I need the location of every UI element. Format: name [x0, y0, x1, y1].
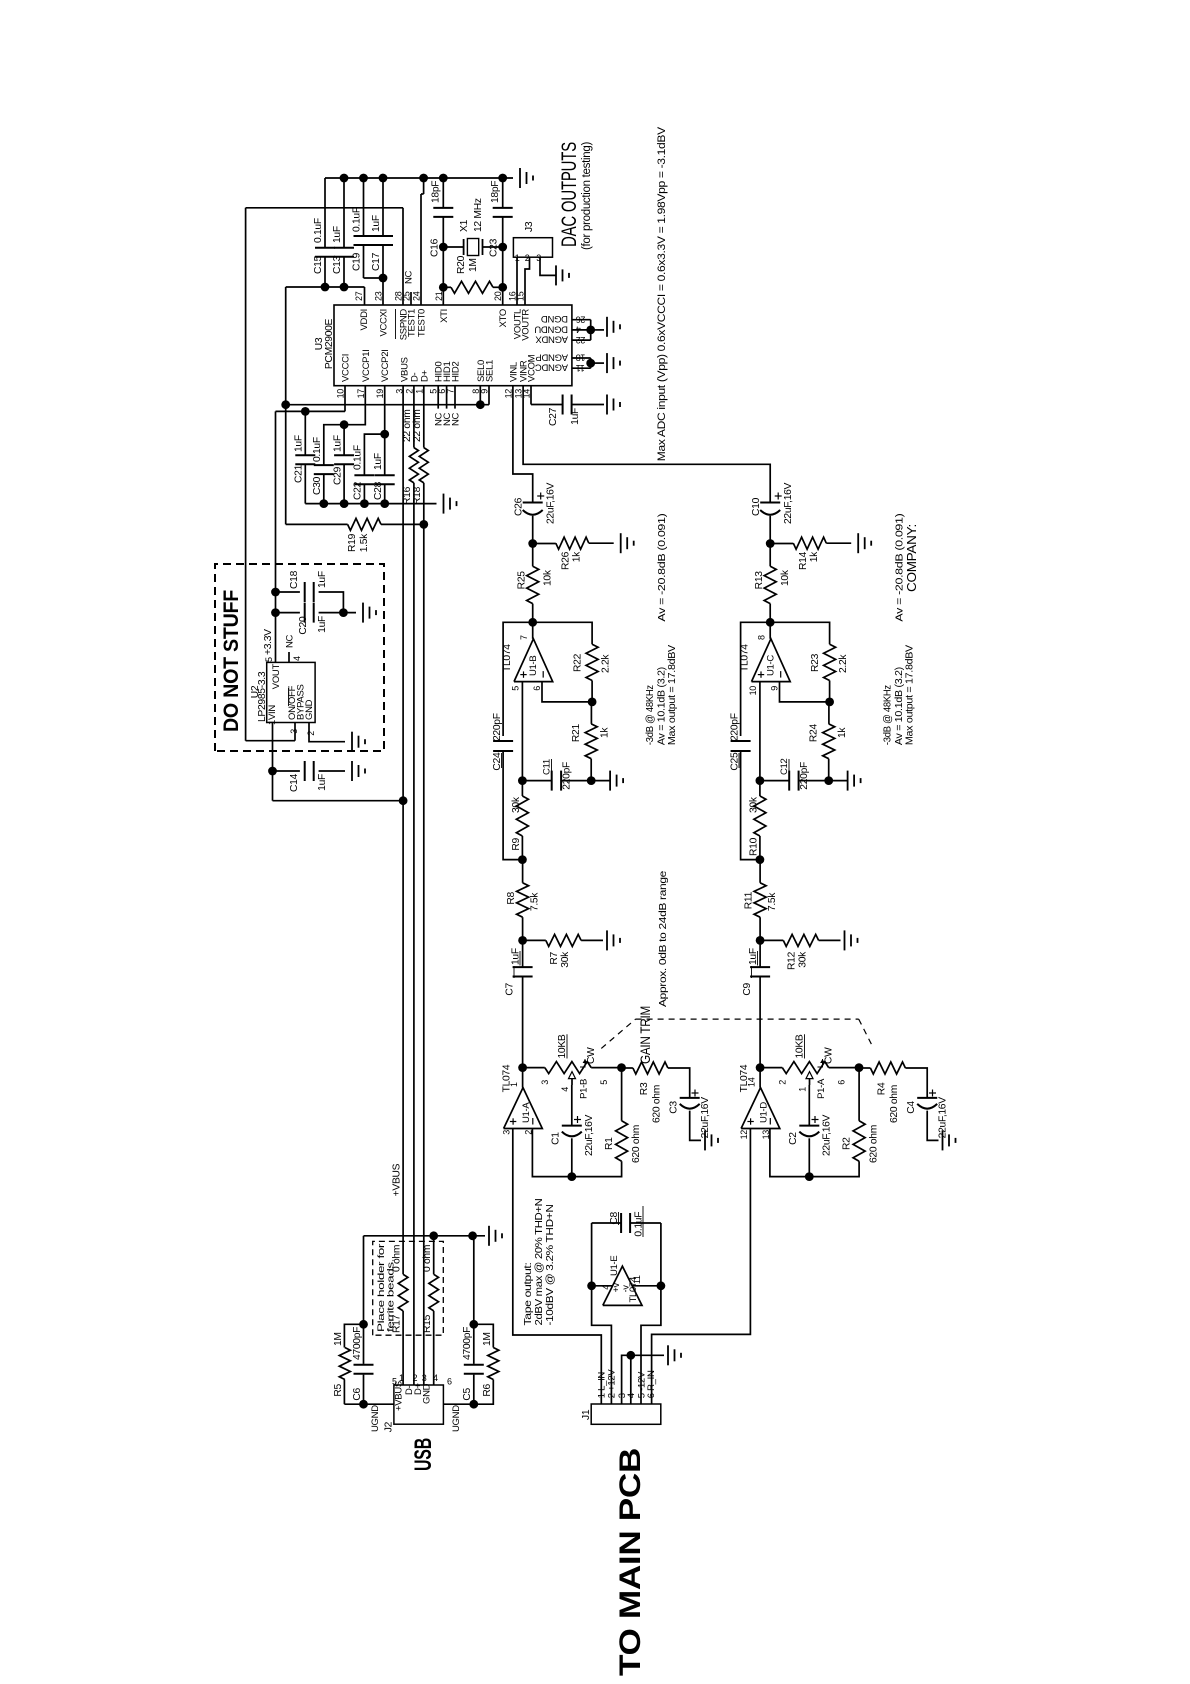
resistor R15 0 ohm — [422, 1231, 439, 1385]
svg-text:2: 2 — [778, 1080, 788, 1085]
capacitor C11 220pF — [522, 759, 591, 791]
svg-text:18pF: 18pF — [490, 181, 501, 203]
svg-text:Av = -20.8dB (0.091): Av = -20.8dB (0.091) — [656, 514, 668, 622]
svg-text:P1-B: P1-B — [579, 1079, 590, 1099]
svg-text:4: 4 — [601, 1285, 611, 1290]
svg-text:620 ohm: 620 ohm — [631, 1125, 642, 1163]
svg-text:10KB: 10KB — [795, 1034, 806, 1058]
U3 pin 19 VCCP2I — [375, 349, 391, 398]
svg-text:6: 6 — [532, 686, 542, 691]
svg-text:Tape output:: Tape output: — [523, 1263, 534, 1326]
capacitor C28 1uF — [373, 434, 395, 504]
resistor R7 30k to ground — [523, 934, 603, 967]
svg-text:3: 3 — [289, 729, 299, 734]
svg-text:R4: R4 — [877, 1082, 888, 1095]
svg-text:R19: R19 — [347, 533, 358, 552]
ground cap bank — [443, 494, 445, 514]
svg-text:DGNDU: DGNDU — [534, 323, 568, 334]
DO NOT STUFF dashed box — [215, 564, 384, 751]
capacitor C24 220pF feedback — [492, 622, 533, 859]
svg-text:2dBV max @ 20% THD+N: 2dBV max @ 20% THD+N — [534, 1199, 545, 1326]
svg-text:R22: R22 — [573, 653, 584, 672]
capacitor C1 22uF,16V — [551, 1085, 596, 1181]
svg-text:1k: 1k — [809, 551, 820, 562]
capacitor C14 1uF — [273, 761, 346, 792]
svg-text:C15: C15 — [313, 255, 324, 274]
resistor R19 1.5k pull-up — [286, 518, 428, 552]
svg-text:C27: C27 — [548, 407, 559, 426]
wire U1-D inverting feedback — [770, 1129, 859, 1177]
wire SEL0/SEL1 net — [286, 386, 489, 409]
connector J1 — [581, 1369, 661, 1425]
resistor R26 1k to ground — [533, 537, 614, 570]
annotation Av — [882, 514, 916, 746]
svg-text:R26: R26 — [561, 551, 572, 570]
svg-text:R8: R8 — [506, 891, 517, 904]
wire J1 pins 3 4 ground — [622, 1351, 664, 1404]
wire VDDI trunk B to SEL/R19 — [281, 287, 290, 524]
svg-text:7: 7 — [519, 635, 529, 640]
svg-text:10: 10 — [336, 389, 346, 399]
svg-text:C9: C9 — [742, 982, 753, 995]
resistor R22 2.2k — [573, 644, 612, 702]
wire UGND rail — [344, 1400, 478, 1409]
wire dashed pointer gain trim — [601, 1019, 873, 1048]
svg-text:30k: 30k — [749, 796, 760, 813]
U3 pin 6 HID1 — [437, 362, 453, 394]
capacitor C5 4700pF — [462, 1236, 484, 1404]
svg-text:(for production testing): (for production testing) — [581, 142, 593, 250]
capacitor C6 4700pF — [352, 1320, 374, 1404]
svg-text:C26: C26 — [514, 497, 525, 516]
svg-text:C19: C19 — [352, 252, 363, 271]
svg-text:9: 9 — [770, 686, 780, 691]
op-amp U1-E TL074 spare — [592, 1256, 661, 1306]
svg-text:C10: C10 — [751, 497, 762, 516]
svg-text:21: 21 — [434, 291, 444, 301]
svg-text:NC: NC — [404, 270, 415, 284]
svg-text:1k: 1k — [600, 727, 611, 738]
capacitor C10 22uF,16V input coupling — [751, 482, 794, 543]
svg-text:AGNDC: AGNDC — [535, 362, 568, 373]
svg-text:VCCP1I: VCCP1I — [361, 349, 372, 382]
Tape output annotation — [523, 1199, 556, 1326]
node pot top — [756, 1063, 765, 1072]
resistor R12 30k to ground — [760, 934, 840, 970]
svg-text:VOUTR: VOUTR — [521, 309, 532, 341]
wire TEST1 pin25 NC stub — [410, 292, 412, 305]
svg-text:P1-A: P1-A — [816, 1078, 827, 1099]
wire GND net to main ground — [364, 1231, 486, 1324]
svg-text:NC: NC — [285, 634, 296, 648]
svg-text:12: 12 — [739, 1130, 749, 1140]
svg-text:220pF: 220pF — [492, 713, 503, 741]
resistor R16 22 ohm — [402, 409, 418, 505]
svg-text:1uF: 1uF — [333, 435, 344, 452]
svg-text:5: 5 — [392, 1377, 397, 1387]
svg-text:GND: GND — [304, 699, 315, 720]
svg-text:D+: D+ — [419, 369, 430, 382]
op-amp U1-B TL074 — [502, 622, 553, 690]
resistor R21 1k — [571, 702, 611, 781]
capacitor C7 1uF — [505, 940, 533, 1067]
wire VOUTL pin16 to J3 pin1 — [516, 257, 518, 305]
svg-text:SEL1: SEL1 — [485, 360, 496, 382]
ground C27 — [606, 395, 608, 415]
svg-text:C21: C21 — [294, 464, 305, 483]
annotation Av — [644, 514, 678, 746]
GAIN TRIM title — [638, 870, 669, 1064]
wire VBUS net — [399, 386, 408, 1275]
svg-text:R5: R5 — [333, 1383, 344, 1396]
capacitor C20 1uF — [276, 603, 357, 635]
svg-text:620 ohm: 620 ohm — [869, 1125, 880, 1163]
capacitor C27 1uF on VCOM — [531, 386, 604, 426]
resistor R25 10k — [517, 544, 554, 623]
node feedback — [528, 618, 537, 627]
potentiometer P1-A 10KB — [760, 1034, 859, 1099]
svg-text:1uF: 1uF — [373, 453, 384, 470]
node R10/R11 — [756, 855, 765, 864]
svg-text:VCCCI: VCCCI — [341, 354, 352, 382]
resistor R8 7.5k — [506, 860, 541, 941]
svg-text:U1-B: U1-B — [528, 656, 539, 676]
svg-text:30k: 30k — [798, 951, 809, 968]
svg-text:R24: R24 — [809, 724, 820, 743]
capacitor C30 0.1uF — [312, 437, 334, 503]
capacitor C29 1uF — [333, 425, 355, 504]
svg-text:R12: R12 — [787, 951, 798, 970]
svg-text:C3: C3 — [669, 1101, 680, 1114]
crystal X1 12 MHz — [443, 198, 502, 255]
connector J2 USB — [370, 1373, 462, 1432]
svg-text:R25: R25 — [517, 571, 528, 590]
svg-text:620 ohm: 620 ohm — [652, 1085, 663, 1123]
wire VCCP2I net — [364, 386, 389, 475]
svg-text:C2: C2 — [788, 1132, 799, 1145]
svg-text:1: 1 — [509, 1082, 519, 1087]
ground R7 — [606, 930, 608, 950]
svg-text:5: 5 — [264, 657, 274, 662]
resistor R1 620 ohm — [604, 1068, 642, 1163]
capacitor C16 18pF — [430, 178, 454, 257]
wire TEST0 pin24 to ground bus — [420, 194, 422, 305]
wire VINL input from codec — [513, 386, 533, 503]
capacitor C13 1uF — [332, 178, 354, 287]
svg-text:R10: R10 — [749, 837, 760, 856]
svg-text:1k: 1k — [572, 551, 583, 562]
svg-text:22uF,16V: 22uF,16V — [783, 482, 794, 524]
U3 pin 17 VCCP1I — [356, 349, 372, 398]
resistor R3 620 ohm — [622, 1062, 690, 1123]
capacitor C22 0.1uF — [353, 445, 375, 503]
svg-text:R1: R1 — [604, 1137, 615, 1150]
wire + input pin 5 — [518, 682, 527, 785]
svg-text:1uF: 1uF — [371, 215, 382, 232]
svg-text:620 ohm: 620 ohm — [889, 1085, 900, 1123]
resistor R10 30k — [749, 781, 766, 860]
ground C18/C20 — [362, 603, 364, 623]
ground R21 node — [591, 771, 623, 791]
ground U2 GND — [351, 732, 353, 752]
svg-text:220pF: 220pF — [799, 762, 810, 790]
svg-text:0.1uF: 0.1uF — [313, 218, 324, 243]
resistor R2 620 ohm — [842, 1068, 880, 1163]
U3 pin 28 SSPND — [394, 291, 410, 340]
svg-text:-3dB @ 48KHz: -3dB @ 48KHz — [644, 685, 656, 745]
svg-text:17: 17 — [356, 389, 366, 399]
U3 pin 10 VCCCI — [336, 354, 352, 398]
capacitor C25 220pF feedback — [730, 622, 771, 859]
U3 pin 24 TEST0 — [412, 291, 428, 337]
svg-text:4700pF: 4700pF — [462, 1327, 473, 1360]
resistor R4 620 ohm — [859, 1062, 927, 1123]
svg-text:NC: NC — [451, 412, 462, 426]
svg-text:CW: CW — [824, 1047, 835, 1064]
U3 pin 22 AGNDX — [535, 334, 586, 345]
svg-text:R13: R13 — [754, 571, 765, 590]
svg-text:18pF: 18pF — [431, 181, 442, 203]
svg-text:+v: +v — [611, 1282, 621, 1292]
svg-text:22uF,16V: 22uF,16V — [584, 1114, 595, 1156]
ground USB GND net — [488, 1226, 490, 1246]
svg-text:+VBUS: +VBUS — [392, 1163, 403, 1196]
wire +12V rail — [587, 1223, 611, 1404]
capacitor C23 18pF — [489, 178, 513, 257]
svg-text:0.1uF: 0.1uF — [353, 445, 364, 470]
wire SSPND net to ON/OFF (trunk A) — [246, 208, 403, 741]
svg-text:C29: C29 — [333, 466, 344, 485]
svg-text:VCCP2I: VCCP2I — [380, 349, 391, 382]
wire feedback to R22 — [533, 622, 592, 644]
U3 pin 16 VOUTL — [508, 291, 524, 339]
wire VIN net from VBUS — [268, 723, 403, 801]
svg-text:R20: R20 — [456, 255, 467, 274]
svg-text:-3dB @ 48KHz: -3dB @ 48KHz — [882, 685, 894, 745]
op-amp U1-A TL074 — [502, 1064, 543, 1135]
svg-text:1uF: 1uF — [317, 571, 328, 588]
svg-text:U1-A: U1-A — [521, 1102, 532, 1123]
ground DGND group — [606, 317, 608, 337]
svg-text:2: 2 — [404, 389, 414, 394]
svg-text:1uF: 1uF — [332, 226, 343, 243]
U3 pin 26 DGND — [541, 313, 586, 324]
svg-text:7.5k: 7.5k — [530, 892, 541, 911]
svg-text:AGNDP: AGNDP — [536, 352, 568, 363]
wire VCCP1I net — [324, 386, 366, 465]
svg-text:HID2: HID2 — [451, 362, 462, 382]
capacitor C21 1uF — [294, 411, 316, 503]
svg-text:1: 1 — [414, 389, 424, 394]
ground R24 node — [829, 771, 861, 791]
svg-text:Max output = 17.8dBV: Max output = 17.8dBV — [666, 645, 678, 745]
svg-text:J2: J2 — [384, 1421, 395, 1432]
svg-text:GAIN TRIM: GAIN TRIM — [638, 1006, 653, 1064]
U3 pin 4 DGNDU — [534, 323, 580, 334]
op-amp U1-D TL074 — [739, 1064, 780, 1139]
svg-text:XTO: XTO — [498, 309, 509, 327]
svg-text:Max output = 17.8dBV: Max output = 17.8dBV — [904, 645, 916, 745]
U3 pin 8 SEL0 — [471, 360, 487, 394]
svg-text:12: 12 — [503, 389, 513, 399]
svg-text:10k: 10k — [780, 569, 791, 586]
svg-text:12 MHz: 12 MHz — [473, 198, 484, 232]
U3 pin 5 HID0 — [429, 362, 445, 394]
svg-text:20: 20 — [493, 291, 503, 301]
wire inverting input pin 6 — [542, 682, 592, 702]
wire XTO net pin20 — [498, 217, 507, 305]
svg-text:C11: C11 — [542, 759, 553, 775]
wire L_IN from J1 pin1 to U1-A + input — [513, 1129, 602, 1405]
svg-text:1uF: 1uF — [294, 435, 305, 452]
svg-text:1.5k: 1.5k — [359, 533, 370, 552]
svg-text:14: 14 — [747, 1077, 757, 1087]
svg-text:1M: 1M — [333, 1332, 344, 1346]
svg-text:24: 24 — [412, 291, 422, 301]
svg-text:1uF: 1uF — [570, 408, 581, 425]
wire J3 pin3 to ground — [540, 257, 556, 275]
resistor R14 1k to ground — [770, 537, 851, 570]
resistor R18 22 ohm — [412, 409, 428, 505]
wire -12V rail — [641, 1223, 665, 1404]
svg-text:C30: C30 — [312, 476, 323, 495]
resistor R9 30k — [511, 781, 528, 860]
svg-text:2.2k: 2.2k — [838, 654, 849, 673]
svg-text:U1-E: U1-E — [609, 1256, 620, 1276]
svg-text:2: 2 — [413, 1373, 418, 1383]
svg-text:R17: R17 — [392, 1314, 403, 1333]
svg-text:C18: C18 — [289, 570, 300, 589]
ground R26 — [620, 533, 622, 553]
svg-text:UGND: UGND — [370, 1405, 381, 1432]
resistor R17 0 ohm — [392, 1245, 408, 1385]
svg-text:30k: 30k — [511, 796, 522, 813]
svg-text:4: 4 — [292, 656, 302, 661]
capacitor C18 1uF — [276, 570, 344, 612]
svg-text:0 ohm: 0 ohm — [422, 1245, 433, 1272]
svg-text:C28: C28 — [373, 481, 384, 500]
svg-text:R11: R11 — [744, 891, 755, 909]
svg-text:R21: R21 — [571, 724, 582, 743]
svg-text:19: 19 — [375, 389, 385, 399]
svg-text:6: 6 — [837, 1080, 847, 1085]
svg-text:30k: 30k — [560, 951, 571, 968]
svg-text:C14: C14 — [289, 773, 300, 792]
capacitor C19 0.1uF — [352, 178, 374, 278]
svg-text:TL074: TL074 — [502, 1064, 513, 1092]
capacitor C9 1uF — [742, 940, 770, 1067]
svg-text:22uF,16V: 22uF,16V — [822, 1114, 833, 1156]
svg-text:Approx. 0dB to 24dB range: Approx. 0dB to 24dB range — [657, 870, 669, 1007]
svg-text:5: 5 — [599, 1080, 609, 1085]
svg-text:C1: C1 — [551, 1132, 562, 1145]
ground AGND group — [606, 353, 608, 373]
svg-text:0 ohm: 0 ohm — [392, 1245, 403, 1272]
wire feedback to R23 — [770, 622, 829, 644]
svg-text:1: 1 — [798, 1087, 808, 1092]
svg-text:Max ADC input (Vpp) 0.6xVCCCI: Max ADC input (Vpp) 0.6xVCCCI = 0.6x3.3V… — [656, 126, 668, 461]
svg-text:U1-D: U1-D — [759, 1102, 770, 1123]
node pot top — [518, 1063, 527, 1072]
resistor R11 7.5k — [744, 860, 779, 941]
wire VINR input from codec — [523, 386, 770, 503]
svg-text:10KB: 10KB — [557, 1034, 568, 1058]
NC stubs HID0 HID1 HID2 — [434, 386, 462, 426]
svg-text:X1: X1 — [459, 219, 470, 232]
node R11/R12 — [756, 936, 765, 945]
wire D+ net with R18 — [423, 386, 425, 1385]
ground C14 — [351, 761, 353, 781]
wire D- net with R16 — [413, 386, 415, 1385]
svg-text:R3: R3 — [639, 1082, 650, 1095]
svg-text:220pF: 220pF — [562, 762, 573, 790]
svg-text:TL074: TL074 — [628, 1277, 639, 1302]
node C26/R junction — [528, 539, 537, 548]
svg-text:R9: R9 — [511, 837, 522, 850]
U3 pin 14 VCOM — [522, 354, 538, 398]
U3 pin 12 VINL — [503, 362, 519, 398]
wire VOUTR pin15 to J3 pin2 — [525, 257, 530, 305]
node R22/R21 inverting — [588, 698, 597, 707]
svg-text:-10dBV @ 3.2% THD+N: -10dBV @ 3.2% THD+N — [545, 1205, 556, 1326]
op-amp U1-C TL074 — [740, 622, 791, 695]
svg-text:XTI: XTI — [439, 309, 450, 323]
capacitor C26 22uF,16V input coupling — [514, 482, 557, 543]
svg-text:R15: R15 — [422, 1314, 433, 1333]
svg-text:7.5k: 7.5k — [767, 892, 778, 911]
wire cap bank ground rail — [305, 499, 436, 508]
svg-text:J3: J3 — [524, 221, 535, 232]
wire VDDI net — [286, 283, 365, 305]
svg-text:C22: C22 — [353, 481, 364, 500]
capacitor C4 22uF,16V — [906, 1090, 949, 1141]
svg-text:1M: 1M — [482, 1332, 493, 1346]
svg-text:J1: J1 — [581, 1409, 592, 1420]
wire +3.3V VOUT net (trunk C) — [263, 386, 345, 663]
resistor R6 1M — [474, 1324, 499, 1404]
svg-text:10: 10 — [748, 686, 758, 696]
Place holder for ferrite beads note — [376, 1244, 397, 1332]
svg-text:1k: 1k — [837, 727, 848, 738]
node feedback — [766, 618, 775, 627]
U3 pin 18 AGNDP — [536, 352, 586, 363]
node C11/R21 ground node — [824, 776, 833, 785]
capacitor C8 0.1uF — [592, 1206, 661, 1237]
capacitor C12 220pF — [760, 758, 829, 790]
svg-text:6: 6 — [447, 1377, 452, 1387]
U3 pin 9 SEL1 — [480, 360, 496, 394]
U3 pin 21 XTI — [434, 291, 450, 323]
connector J3 — [513, 221, 552, 263]
capacitor C3 22uF,16V — [669, 1090, 712, 1141]
svg-text:R23: R23 — [810, 653, 821, 672]
svg-text:COMPANY:: COMPANY: — [904, 524, 919, 592]
svg-text:1uF: 1uF — [317, 774, 328, 791]
svg-text:22 ohm: 22 ohm — [412, 409, 423, 442]
resistor R5 1M — [333, 1324, 364, 1404]
svg-text:C6: C6 — [352, 1387, 363, 1400]
ground C3 — [704, 1130, 706, 1150]
U3 pin 13 VINR — [514, 360, 530, 398]
svg-text:R18: R18 — [412, 486, 423, 505]
svg-text:4700pF: 4700pF — [352, 1327, 363, 1360]
node R8/R7 — [518, 936, 527, 945]
svg-text:C4: C4 — [906, 1101, 917, 1114]
node C10/R junction — [766, 539, 775, 548]
svg-text:3: 3 — [540, 1080, 550, 1085]
DAC OUTPUTS title — [558, 142, 593, 250]
svg-text:GND: GND — [422, 1383, 433, 1404]
